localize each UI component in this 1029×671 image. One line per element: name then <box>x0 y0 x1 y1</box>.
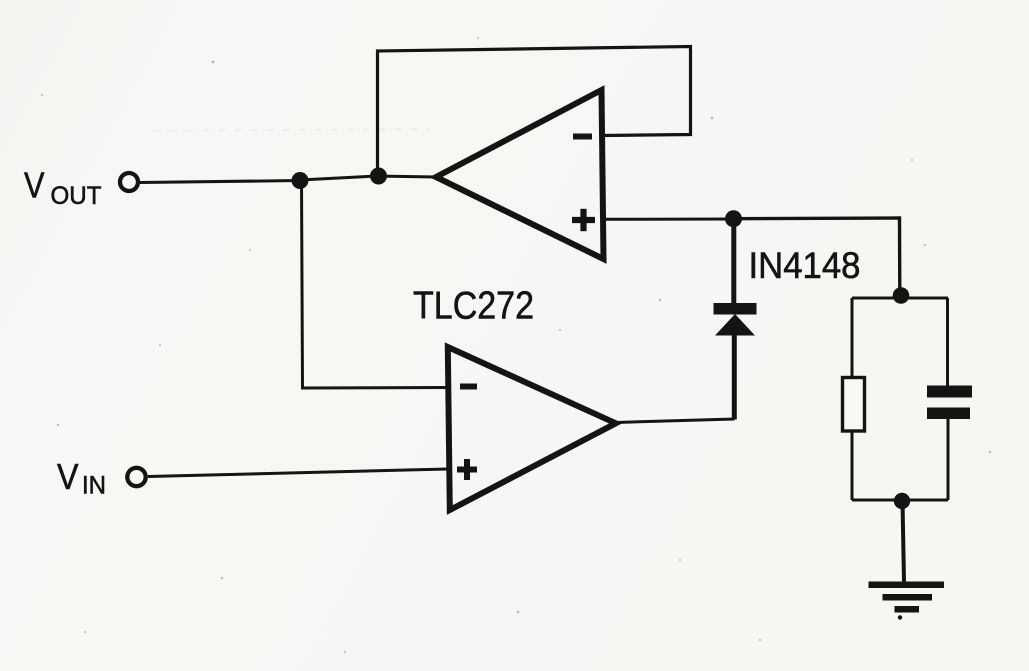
label VOUT <box>24 165 102 210</box>
node J4 <box>893 287 910 304</box>
wire VIN to U1B non-inverting input <box>148 469 448 477</box>
label VIN <box>57 456 106 500</box>
capacitor C1 <box>927 386 972 420</box>
svg-text:IN: IN <box>82 472 106 500</box>
terminal VOUT <box>120 173 138 191</box>
ground <box>869 582 945 620</box>
diode D1 IN4148 (cathode up) <box>714 219 757 420</box>
wire J2 to U1A output <box>377 176 437 177</box>
faint scanner streak <box>155 129 430 131</box>
wire RC bottom rail <box>852 499 948 502</box>
wire top rail to resistor R1 <box>851 298 854 379</box>
node J1 <box>292 172 309 189</box>
wire VOUT to node J1 <box>140 181 300 183</box>
wire top rail to capacitor C1 <box>946 298 949 386</box>
node J2 <box>370 168 387 185</box>
U1B non-inverting input label (+) <box>457 459 477 480</box>
terminal VIN <box>127 468 145 486</box>
node J3 <box>725 210 742 227</box>
wire J1 down and to U1B inverting input <box>302 181 449 389</box>
svg-text:V: V <box>57 456 79 497</box>
wire U1B output to diode bottom <box>616 419 735 423</box>
U1A inverting input label (-) <box>573 134 592 140</box>
wire RC top rail <box>852 297 948 300</box>
U1B inverting input label (-) <box>460 384 477 390</box>
wire J3 to top of RC branch <box>734 218 900 296</box>
svg-text:IN4148: IN4148 <box>749 244 861 286</box>
svg-text:TLC272: TLC272 <box>413 285 534 328</box>
wire J1 to node J2 <box>300 176 377 180</box>
wire J5 to ground <box>903 501 905 582</box>
op-amp U1B (right-facing) <box>448 347 616 510</box>
wire resistor R1 to bottom rail <box>851 431 854 500</box>
svg-text:V: V <box>24 165 45 206</box>
svg-text:OUT: OUT <box>51 182 102 210</box>
wire U1A non-inverting input to node J3 <box>604 218 734 221</box>
wire capacitor C1 to bottom rail <box>947 419 950 500</box>
wire feedback loop (J2 up, across, down to U1A inverting input) <box>378 47 691 176</box>
op-amp U1A (left-facing) <box>436 90 604 259</box>
resistor R1 <box>843 378 865 432</box>
node J5 <box>894 493 910 509</box>
U1A non-inverting input label (+) <box>572 209 595 231</box>
